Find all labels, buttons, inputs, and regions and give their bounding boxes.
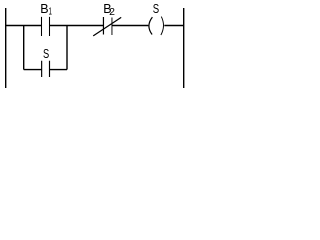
svg-text:B: B [40, 2, 48, 16]
coil S left paren [149, 17, 152, 34]
contact B1 [42, 17, 50, 36]
B2 slash [93, 17, 121, 36]
wire coil to rail [164, 25, 183, 27]
branch wire right [50, 69, 68, 71]
left power rail [5, 8, 7, 88]
wire B2 to coil [112, 25, 148, 27]
branch left drop wire [23, 26, 25, 70]
branch right drop wire [66, 26, 68, 70]
svg-text:S: S [153, 2, 159, 16]
svg-text:2: 2 [109, 6, 115, 18]
svg-text:S: S [43, 47, 49, 61]
wire rail to B1 [6, 25, 42, 27]
coil S right paren [161, 17, 164, 35]
contact S (seal-in) [42, 61, 50, 77]
branch wire left [24, 69, 42, 71]
contact B2 (normally closed) [102, 17, 104, 35]
wire B1 to B2 [50, 25, 104, 27]
right power rail [183, 8, 185, 88]
svg-text:1: 1 [49, 6, 53, 18]
